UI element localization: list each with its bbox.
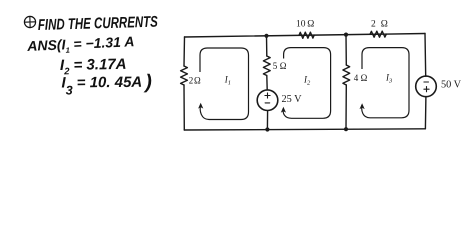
svg-text:Ω: Ω [194,76,201,86]
svg-text:2: 2 [371,19,376,29]
svg-text:Ω: Ω [307,19,314,29]
svg-text:2: 2 [189,76,194,86]
svg-text:Ω: Ω [280,61,287,71]
svg-text:4: 4 [354,73,359,83]
svg-text:FIND THE CURRENTS: FIND THE CURRENTS [38,14,159,34]
svg-text:25 V: 25 V [282,94,303,105]
svg-text:Ω: Ω [381,19,388,29]
svg-text:50 V: 50 V [441,80,462,91]
svg-text:Ω: Ω [361,73,368,83]
svg-text:ANS(I1 = −1.31 A: ANS(I1 = −1.31 A [26,33,135,56]
svg-text:5: 5 [273,61,278,71]
svg-text:I1: I1 [224,75,231,87]
svg-text:I3 = 10. 45A): I3 = 10. 45A) [61,71,152,97]
svg-text:10: 10 [296,19,306,29]
svg-text:I2: I2 [303,75,311,87]
svg-text:I3: I3 [385,73,393,85]
